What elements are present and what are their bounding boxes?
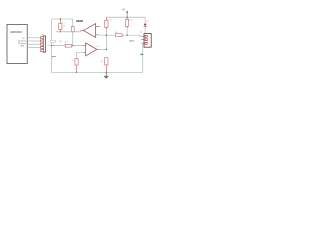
junction +5V rail xyxy=(126,17,127,18)
junction R1 output xyxy=(60,31,61,32)
resistor R6 (horizontal) xyxy=(115,34,122,37)
label R3 xyxy=(59,41,61,43)
label J1 xyxy=(42,34,44,36)
value R1 xyxy=(63,22,65,24)
net label A fan xyxy=(129,40,135,43)
pin label blob xyxy=(141,54,144,55)
wire 5V to J1 xyxy=(27,37,40,39)
pin label D5 (pwm) xyxy=(18,41,26,43)
svg-text:D4 (pwm): D4 (pwm) xyxy=(18,41,26,43)
resistor R4 xyxy=(105,17,108,29)
resistor R8 xyxy=(105,58,108,73)
pin number 7 xyxy=(97,45,100,48)
wire 5V rail top right xyxy=(106,16,145,18)
value R7 xyxy=(72,60,74,62)
pin label 5V xyxy=(22,38,25,40)
svg-text:D6 (pwm): D6 (pwm) xyxy=(18,43,26,45)
value R6 xyxy=(115,32,118,34)
wire R4 down xyxy=(105,29,107,49)
pin label D6 (pwm) xyxy=(18,43,26,45)
value R4 xyxy=(109,19,112,21)
junction bus gnd xyxy=(106,72,107,73)
junction R7 bus xyxy=(76,72,77,73)
resistor R3 (horizontal) xyxy=(65,44,71,47)
wire GND to J1 xyxy=(27,46,40,48)
pin label GND xyxy=(20,45,25,47)
value R3 xyxy=(65,41,68,43)
bottom bus wire xyxy=(52,71,143,73)
wire top rail xyxy=(52,18,73,20)
wire feedback vertical xyxy=(72,32,74,46)
junction output xyxy=(106,49,107,50)
resistor R7 xyxy=(75,59,78,73)
wire D5 to J1 xyxy=(27,40,40,42)
U1A input stub top xyxy=(96,26,101,28)
junction R1 rail xyxy=(60,18,61,19)
value R5 xyxy=(129,20,132,22)
label LM358 xyxy=(76,21,84,23)
U1A output stub xyxy=(82,30,84,32)
junction R5 wire xyxy=(126,34,127,35)
U1A input stub bottom red xyxy=(96,34,98,36)
wire opamp A output xyxy=(56,31,84,32)
junction R3 out xyxy=(72,45,73,46)
svg-text:GND: GND xyxy=(20,45,25,47)
wire J2 pin3 to bottom bus xyxy=(141,43,143,72)
net label flag box xyxy=(50,40,55,42)
label +5V xyxy=(121,10,126,12)
wire R5 down xyxy=(126,28,128,35)
ground symbol xyxy=(104,72,109,78)
value R8 xyxy=(101,61,104,63)
label J2 xyxy=(140,32,142,34)
wire vertical left rail xyxy=(51,19,53,72)
value R7 below xyxy=(74,68,76,70)
wire opamp B output xyxy=(97,48,107,50)
connector J2 xyxy=(141,34,151,48)
connector J1 xyxy=(41,36,46,52)
resistor R2 xyxy=(71,19,74,32)
junction left rail input xyxy=(51,45,52,46)
wire opamp B input xyxy=(52,45,86,47)
U1A input wire bottom xyxy=(96,35,142,37)
resistor R5 xyxy=(126,17,129,28)
wire D6 to J1 xyxy=(27,43,40,45)
Arduino box U2 xyxy=(7,24,27,63)
junction R4 wire xyxy=(106,34,107,35)
label ARDUINO xyxy=(10,30,22,34)
label D1 xyxy=(147,21,149,23)
U1B pin stubs xyxy=(84,45,86,47)
net label pwm xyxy=(52,56,56,58)
U1B input stub bottom xyxy=(76,53,85,59)
power +5V symbol xyxy=(126,10,128,17)
op-amp U1A (mirrored, pointing left) xyxy=(84,24,96,38)
U1B output stub xyxy=(97,48,99,50)
resistor R1 xyxy=(59,19,62,32)
svg-text:pwm: pwm xyxy=(52,56,56,58)
op-amp U1B (pointing right) xyxy=(86,43,97,56)
svg-text:+5V: +5V xyxy=(121,10,126,12)
svg-text:LM358: LM358 xyxy=(76,21,84,23)
diode D1 xyxy=(144,17,147,33)
junction R2 bottom xyxy=(72,31,73,32)
net label D5pwm xyxy=(48,45,55,47)
